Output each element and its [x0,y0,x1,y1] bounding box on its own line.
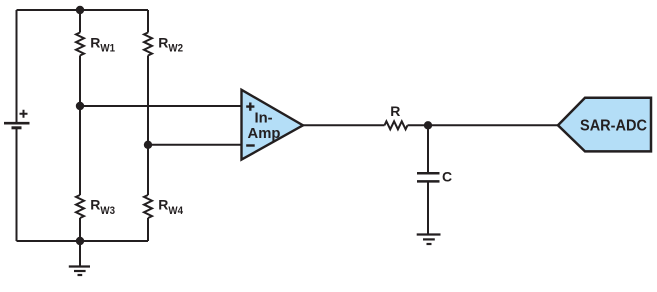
wire node to capacitor [427,125,429,173]
node C bridge right mid junction [144,141,152,149]
node A bridge top junction [76,6,84,14]
battery V1 [4,110,30,128]
svg-text:In-: In- [254,111,272,127]
svg-text:SAR-ADC: SAR-ADC [580,118,647,135]
wire capacitor to ground [427,181,429,234]
node D bridge bottom junction [76,237,84,245]
wire bridge positive output to in-amp [80,105,242,107]
wire right bridge branch middle [147,56,149,196]
node E RC filter junction [424,121,432,129]
resistor R [385,121,408,129]
svg-text:RW4: RW4 [158,197,184,217]
wire bridge negative output to in-amp [148,144,242,146]
wire battery branch upper [16,10,18,123]
capacitor C [417,173,440,181]
op-amp U1 In-Amp [242,90,304,160]
svg-text:RW3: RW3 [90,197,115,217]
wire R to SAR-ADC [408,124,559,126]
resistor RW1 [76,33,84,56]
svg-text:RW1: RW1 [90,34,115,54]
resistor RW4 [144,195,152,218]
wire left bridge branch bottom [79,218,81,241]
node B bridge left mid junction [76,102,84,110]
resistor RW2 [144,33,152,56]
wire left bridge branch top [79,10,81,33]
wire bottom rail [17,240,149,242]
wire left bridge branch middle [79,56,81,196]
ground bridge [69,241,90,275]
in-amp plus sign [246,103,254,111]
wire in-amp output [303,124,385,126]
wire top rail [17,9,149,11]
wire right bridge branch bottom [147,218,149,241]
wire battery branch lower [16,128,18,241]
svg-text:C: C [442,169,452,185]
SAR-ADC U2 [558,98,651,152]
wire right bridge branch top [147,10,149,33]
ground capacitor [417,235,441,245]
svg-text:R: R [390,103,400,119]
resistor RW3 [76,195,84,218]
svg-text:Amp: Amp [248,126,281,142]
in-amp minus sign [246,144,255,146]
svg-text:RW2: RW2 [158,34,183,54]
